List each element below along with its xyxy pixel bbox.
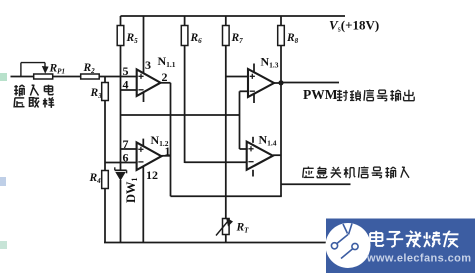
svg-text:3: 3 bbox=[145, 58, 151, 72]
svg-text:PWM: PWM bbox=[303, 87, 338, 102]
svg-text:5: 5 bbox=[123, 64, 129, 78]
svg-text:6: 6 bbox=[123, 151, 129, 165]
svg-text:www.elecfans.com: www.elecfans.com bbox=[366, 253, 471, 265]
svg-text:12: 12 bbox=[146, 168, 158, 182]
svg-text:Vs(+18V): Vs(+18V) bbox=[329, 18, 379, 34]
svg-text:4: 4 bbox=[123, 78, 129, 92]
svg-text:7: 7 bbox=[123, 137, 129, 151]
svg-text:2: 2 bbox=[162, 70, 168, 84]
